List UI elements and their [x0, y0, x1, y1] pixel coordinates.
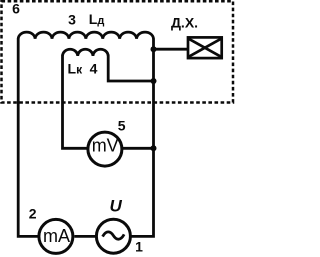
dashed enclosure box 6: [2, 1, 234, 102]
svg-text:mV: mV: [92, 136, 119, 156]
wire right vertical + bottom-right: [131, 39, 154, 237]
hall sensor X diagonal 1: [189, 39, 221, 57]
wire L_k left lead to mV: [63, 56, 89, 149]
inductor L_d (3): [18, 32, 153, 39]
wire left vertical + bottom-left: [18, 39, 37, 237]
AC sine symbol: [103, 232, 125, 239]
millivoltmeter mV (5): [88, 132, 122, 166]
wire node A to hall sensor: [154, 48, 189, 51]
hall sensor D.X. box: [188, 37, 222, 58]
svg-text:3: 3: [68, 12, 76, 28]
svg-text:Lд: Lд: [89, 11, 105, 27]
inductor L_k (4): [63, 49, 109, 56]
svg-text:1: 1: [135, 239, 143, 255]
wire mA to source: [74, 235, 95, 238]
svg-text:Д.Х.: Д.Х.: [171, 14, 198, 30]
svg-text:4: 4: [90, 60, 98, 76]
AC source U (1): [96, 219, 130, 253]
node C junction: [151, 145, 157, 151]
svg-text:Lк: Lк: [68, 60, 84, 76]
wire L_k right lead to node B: [108, 56, 153, 82]
svg-text:U: U: [109, 197, 122, 216]
svg-text:6: 6: [12, 1, 20, 17]
node A junction: [151, 46, 157, 52]
milliammeter mA (2): [39, 219, 73, 253]
svg-text:mA: mA: [43, 226, 70, 246]
node B junction: [151, 78, 157, 84]
hall sensor X diagonal 2: [189, 39, 221, 57]
svg-text:5: 5: [118, 118, 126, 134]
wire mV to node C: [122, 147, 154, 150]
svg-text:2: 2: [29, 206, 37, 222]
